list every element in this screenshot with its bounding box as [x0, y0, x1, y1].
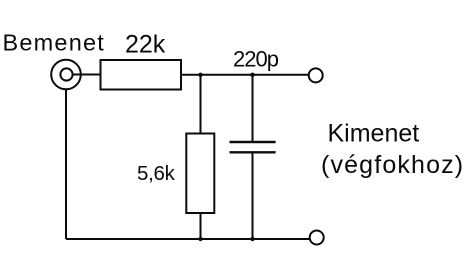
- svg-text:5,6k: 5,6k: [137, 162, 176, 185]
- output terminal top (Kimenet +): [309, 68, 323, 82]
- svg-text:Bemenet: Bemenet: [3, 30, 105, 56]
- wire: resistor 22k to output terminal: [181, 74, 309, 76]
- wire: node B down to capacitor: [252, 75, 254, 142]
- resistor R 22k (series): [101, 60, 182, 90]
- svg-text:(végfokhoz): (végfokhoz): [321, 151, 464, 179]
- wire: node A down to resistor 5,6k: [200, 75, 202, 134]
- node C (bottom junction under 5,6k): [198, 237, 202, 241]
- node D (bottom junction under capacitor): [250, 237, 254, 241]
- svg-text:220p: 220p: [233, 47, 279, 72]
- svg-text:22k: 22k: [125, 31, 166, 59]
- wire: jack down left side: [65, 89, 67, 239]
- svg-text:Kimenet: Kimenet: [328, 120, 420, 148]
- output terminal bottom (Kimenet -): [310, 231, 324, 245]
- wire: capacitor to bottom rail: [252, 152, 254, 239]
- wire: resistor 5,6k to bottom rail: [200, 213, 202, 239]
- input jack J1 (Bemenet terminal): [51, 60, 81, 90]
- wire: bottom rail: [66, 238, 310, 240]
- node A (junction after 22k): [198, 73, 202, 77]
- node B (junction at capacitor top): [250, 73, 254, 77]
- wire: jack to resistor 22k: [73, 74, 101, 76]
- resistor R 5,6k (shunt): [186, 134, 214, 214]
- capacitor C 220p: [230, 142, 276, 152]
